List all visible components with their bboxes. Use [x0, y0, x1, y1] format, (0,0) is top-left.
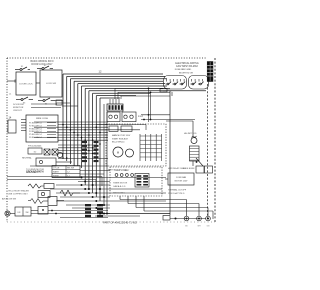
connector P2 (pin header) — [107, 104, 123, 111]
label: gauge 12 — [99, 69, 102, 73]
svg-text:CONV FAN: CONV FAN — [176, 176, 187, 179]
harness wire W8 (L-run) — [89, 91, 206, 189]
svg-text:HTR RELAY 240V: HTR RELAY 240V — [168, 167, 185, 170]
wire step b — [128, 196, 199, 216]
wire riser pair — [149, 88, 151, 122]
svg-text:LOCK SW: LOCK SW — [46, 83, 57, 85]
svg-text:P6 BU-WH 14: P6 BU-WH 14 — [29, 137, 42, 139]
label: tracer l1 — [8, 190, 29, 193]
wire J1 to rail — [56, 161, 72, 163]
label: timer l4 — [113, 193, 126, 195]
label: timer title — [114, 169, 130, 172]
connector P1 stub — [56, 100, 62, 105]
svg-text:WIRE CODE: WIRE CODE — [36, 118, 49, 120]
relay K2 (small box) — [28, 148, 42, 154]
resistor ladder RL1 — [140, 134, 162, 161]
svg-text:120V 60HZ 15A MAX: 120V 60HZ 15A MAX — [176, 65, 198, 68]
fuse F1 — [160, 89, 167, 92]
switch group B outline (pill) — [189, 76, 209, 90]
label: supply spec line2 — [176, 65, 198, 68]
junction dots right bus — [148, 88, 152, 121]
label: timer l3 — [113, 185, 126, 188]
label: motor block l1 — [112, 134, 131, 137]
label: rb note l1 — [168, 189, 187, 192]
switch S1 (door contact, upper-left) — [15, 66, 30, 71]
svg-text:PART OF #3412D345-71 WD: PART OF #3412D345-71 WD — [103, 221, 137, 225]
wire corner C2 — [117, 92, 119, 99]
resistor R2 (zigzag) — [30, 199, 48, 204]
harness wire W11 (L-run) — [100, 98, 120, 201]
wire right rail R1 — [169, 91, 171, 215]
wire corner to right c — [121, 96, 170, 99]
page border right (dashed) — [214, 58, 216, 222]
harness wire W9 (L-run) — [93, 93, 150, 193]
label: part number — [103, 221, 137, 225]
thermal link TL2 (zigzag) — [28, 184, 44, 188]
svg-text:FUSE BRK GND: FUSE BRK GND — [175, 69, 192, 71]
svg-text:MONITOR: MONITOR — [13, 107, 24, 109]
buzzer BZ1 (double ring) — [5, 211, 15, 216]
wire under-box run c — [62, 105, 78, 107]
svg-text:CAM A-B-C-D: CAM A-B-C-D — [113, 185, 126, 188]
label: air flow switch — [2, 198, 16, 201]
label: wiring info title — [30, 60, 53, 63]
wire under-box run b — [56, 102, 70, 104]
terminal T2 (grommet) — [197, 216, 202, 221]
wire drop to switch bank A — [171, 92, 173, 96]
cycle chart table — [52, 166, 80, 178]
label: ground note (italic) — [26, 171, 44, 174]
terminal X2 — [52, 149, 58, 155]
motor enclosure (dashed box) — [106, 124, 166, 166]
label: tracer l2 — [8, 194, 28, 196]
terminal strip label (vertical text bar) — [207, 62, 213, 82]
relay K4 (contact pair) — [122, 112, 136, 122]
svg-text:CIRCUIT: CIRCUIT — [13, 110, 23, 112]
junction dots bottom-left — [51, 210, 57, 215]
harness wire W10 (L-run) — [96, 96, 136, 197]
wire note-to-bus a — [31, 103, 57, 105]
wire mesh-to-center a — [96, 125, 146, 130]
svg-text:MOTOR 120V: MOTOR 120V — [175, 181, 188, 183]
svg-text:TIMER MOTOR: TIMER MOTOR — [113, 183, 128, 185]
wire step c — [136, 196, 208, 216]
lock motor M1 (right box) — [40, 70, 62, 97]
harness wire W5 (L-run) — [78, 84, 165, 166]
svg-text:TO DRIVE MOTOR: TO DRIVE MOTOR — [26, 169, 45, 171]
svg-text:DOOR LOCK ASSY: DOOR LOCK ASSY — [31, 63, 53, 66]
svg-text:CYCLE: CYCLE — [53, 168, 60, 170]
harness verticals to lower section — [104, 104, 107, 214]
label: under TB1 — [28, 145, 42, 147]
svg-text:USE COPPER ONLY: USE COPPER ONLY — [8, 194, 28, 196]
harness wire W1 (L-run) — [63, 74, 163, 158]
harness mesh lower horizontals — [58, 145, 96, 153]
svg-text:DOOR SW: DOOR SW — [13, 104, 25, 106]
wire step a — [120, 196, 187, 216]
label: supply spec line3 — [175, 69, 192, 71]
page border top (dotted) — [7, 57, 206, 59]
label: supply spec line1 — [175, 62, 198, 65]
aux motor symbol — [57, 152, 62, 157]
svg-text:WASH: WASH — [53, 171, 59, 174]
wire lower-left b — [7, 180, 96, 187]
wire bank bus — [163, 90, 172, 92]
wire chart-to-bus a — [80, 170, 110, 172]
harness mesh horizontals — [34, 122, 108, 140]
svg-text:L1-2: L1-2 — [138, 115, 143, 118]
wire mesh-to-center b — [100, 129, 140, 131]
wire bottom rail 2 — [95, 215, 140, 217]
label: rb note l2 — [168, 192, 185, 195]
label: motor block l3 — [112, 141, 125, 143]
label: gauge 14 — [9, 117, 12, 120]
switch group A outline (pill) — [164, 76, 187, 90]
svg-text:BK WH RD OR: BK WH RD OR — [179, 73, 194, 75]
svg-text:MAIN MOTOR 120V: MAIN MOTOR 120V — [112, 134, 131, 137]
switch bank B (S8 S9) — [191, 79, 204, 85]
label: heater — [183, 167, 195, 170]
page border bottom (dotted) — [7, 221, 215, 223]
resistor R1 (module row) — [109, 126, 132, 131]
label: motor block l2 — [112, 137, 128, 140]
lower bus horizontals — [50, 178, 166, 218]
svg-text:1-2: 1-2 — [67, 172, 70, 174]
thermal fuse TF1 (zigzag) — [60, 190, 80, 196]
label: wire color codes — [179, 73, 194, 75]
heater element HR1 (hatched box) — [190, 146, 200, 161]
wire box-to-box — [36, 82, 40, 84]
terminal T3 (grommet) — [206, 216, 211, 221]
switch box SW8 (two-cell) — [15, 207, 31, 216]
connector pins CP1 — [85, 204, 103, 217]
harness wire W2 (L-run) — [67, 76, 165, 161]
wire corner to right a — [115, 87, 170, 89]
svg-text:TIMER + CHART: TIMER + CHART — [114, 169, 130, 172]
wire relay feeds — [141, 115, 195, 121]
terminal T1 (grommet) — [184, 216, 189, 221]
label: L1-2 — [138, 115, 143, 118]
wire chart-to-bus b — [80, 173, 104, 175]
switch S4 (lower-right contact) — [38, 98, 55, 105]
wire step d — [144, 196, 213, 219]
label: heater relay — [168, 167, 185, 170]
svg-text:START RUN AUX: START RUN AUX — [112, 137, 128, 140]
relay K6 (double block) — [196, 166, 213, 173]
svg-text:THERMAL CUTOFF: THERMAL CUTOFF — [168, 189, 187, 192]
harness wire W6 (L-run) — [82, 86, 168, 168]
wire L-drop to thermostat column — [166, 121, 193, 136]
aux relay cluster — [38, 191, 50, 198]
svg-text:SEE NOTE 5: SEE NOTE 5 — [113, 193, 126, 195]
relay K3 (contact pair) — [107, 112, 120, 122]
harness wire W4 (L-run) — [74, 81, 163, 166]
wire lower bus — [58, 158, 108, 160]
wire lower bus 2 — [30, 165, 108, 167]
pin list text rows — [29, 123, 56, 140]
wire note-to-bus b — [31, 107, 61, 109]
label: door switch note — [13, 104, 25, 112]
svg-text:DOOR LOCK: DOOR LOCK — [19, 84, 33, 86]
wire bottom rail — [99, 213, 170, 215]
label: wiring info subtitle — [31, 63, 53, 66]
timer DIP module U1 — [135, 174, 149, 188]
terminal X1 — [44, 149, 50, 155]
border tap stub — [7, 80, 15, 83]
motor M2 (run winding) — [113, 147, 123, 157]
svg-text:M: M — [117, 151, 119, 155]
switch bank A (S5 S6 S7) — [166, 79, 186, 85]
junction dots (mesh) — [62, 124, 101, 159]
label: motor feed note — [26, 169, 45, 174]
harness wire W3 (L-run) — [70, 79, 167, 164]
wire stubs above P2 — [110, 99, 119, 104]
label: right col notes — [184, 133, 197, 135]
svg-text:P1 BU-WH 14: P1 BU-WH 14 — [29, 123, 42, 125]
svg-text:SEE CHART 2: SEE CHART 2 — [26, 171, 40, 174]
svg-text:AIR FLOW SW: AIR FLOW SW — [2, 198, 16, 201]
inline fuse box — [44, 184, 54, 189]
motor M3 (start winding) — [126, 149, 134, 157]
label: border tap — [9, 94, 12, 96]
svg-text:HI-LIMIT TOD: HI-LIMIT TOD — [184, 133, 197, 135]
aux contact block (small box) — [7, 120, 16, 133]
door lock assembly K1 (left box) — [16, 72, 36, 95]
timer enclosure (dashed box) — [110, 167, 162, 196]
terminal block TB1 (header + pins) — [21, 115, 58, 142]
switch S2 (latch contact, upper-right) — [37, 65, 53, 70]
timer contacts row (cam switches) — [115, 174, 133, 177]
harness wire W7 (L-run) — [85, 88, 163, 185]
wire lower-left a — [7, 177, 102, 187]
svg-text:SW: SW — [25, 212, 28, 214]
svg-text:P3 BU-WH 14: P3 BU-WH 14 — [29, 128, 42, 130]
junction box J1 — [36, 158, 56, 166]
wire corner to right b — [118, 91, 170, 93]
junction dots lower — [81, 177, 109, 215]
motor M4 box — [165, 173, 194, 185]
label: under motor box — [108, 168, 128, 171]
wire bottom-left runs — [28, 201, 110, 214]
page border left (dotted) — [6, 58, 8, 222]
switch S3 (lower-left contact) — [16, 97, 33, 104]
thermal cutoff TC1 (tilted) — [193, 158, 203, 166]
svg-text:BK-22 WH-14: BK-22 WH-14 — [112, 141, 125, 143]
label: terminal colors — [185, 226, 210, 228]
label: timer l2 — [113, 183, 128, 185]
wire corner C1 — [114, 88, 116, 99]
connector CP2 — [163, 216, 206, 221]
connector pin stacks CP3 CP4 — [82, 141, 99, 162]
svg-text:BAKE ELEM: BAKE ELEM — [183, 167, 195, 170]
inner dashed rail — [207, 84, 209, 221]
label: neutral — [22, 157, 33, 160]
wire under-box run a — [55, 100, 63, 102]
svg-text:NEUTRAL: NEUTRAL — [22, 157, 33, 160]
svg-text:SEL SW: SEL SW — [67, 168, 74, 170]
capacitor C1 — [48, 197, 64, 206]
svg-text:P/N 22004046: P/N 22004046 — [28, 145, 42, 147]
svg-text:P5 BU-WH 14: P5 BU-WH 14 — [29, 134, 42, 136]
relay K5 — [38, 207, 48, 215]
svg-text:250V 10A TYPE D: 250V 10A TYPE D — [168, 192, 185, 195]
svg-text:ELECTRICAL RATING: ELECTRICAL RATING — [175, 62, 198, 65]
thermostat TH1 (bulb) — [191, 136, 197, 144]
svg-text:YELLOW W/ TRACER: YELLOW W/ TRACER — [8, 190, 29, 193]
